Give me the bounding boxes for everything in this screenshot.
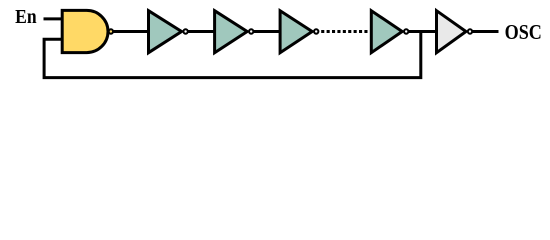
inverter 4 output bubble (404, 29, 408, 33)
svg-text:OSC: OSC (505, 20, 542, 44)
wire dotted continuation (omitted inverters) (321, 30, 367, 33)
output buffer inverter U5 (gray) (437, 11, 467, 53)
inverter 3 output bubble (314, 29, 318, 33)
wire inverter 1 to inverter 2 (188, 30, 216, 33)
inverter 1 output bubble (183, 29, 187, 33)
inverter 4 (371, 11, 402, 53)
nand-gate U1 (62, 10, 108, 52)
inverter 2 (215, 11, 248, 53)
output buffer bubble (468, 29, 472, 33)
wire inverter 4 output to buffer, node A tap (409, 30, 439, 33)
wire buffer output to OSC (472, 30, 498, 33)
svg-text:En: En (15, 7, 37, 28)
wire NAND output to inverter 1 (113, 30, 150, 33)
wire feedback loop: from node A down, along bottom rail, up to NAND bottom input (44, 32, 421, 78)
nand-gate U1 output bubble (109, 29, 113, 33)
inverter 2 output bubble (249, 29, 253, 33)
wire inverter 2 to inverter 3 (254, 30, 282, 33)
inverter 1 (149, 11, 182, 53)
inverter 3 (280, 11, 312, 53)
wire En input to NAND top input (44, 17, 64, 20)
